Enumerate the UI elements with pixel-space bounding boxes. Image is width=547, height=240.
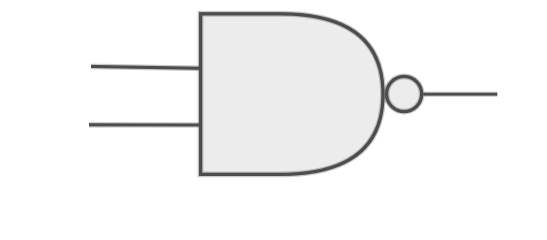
NAND gate U1 body	[201, 14, 383, 175]
wire input B	[89, 122, 201, 128]
wire input A	[91, 66, 201, 68]
wire output	[423, 92, 497, 97]
inversion bubble	[387, 76, 422, 111]
